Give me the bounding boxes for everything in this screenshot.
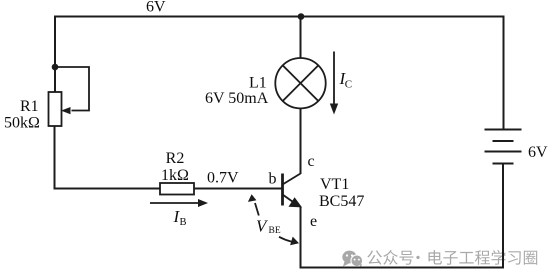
VBE arrow to emitter wire <box>279 237 292 242</box>
wire base row right of R2 <box>194 188 283 190</box>
watermark wechat icon <box>342 251 363 268</box>
node junction dot left <box>52 64 59 71</box>
wire lamp top <box>300 17 302 60</box>
node junction dot top <box>298 13 305 20</box>
svg-text:1kΩ: 1kΩ <box>161 167 189 184</box>
wire R1 bottom to base row <box>54 126 56 190</box>
svg-text:b: b <box>269 171 277 188</box>
battery plate long top <box>485 129 522 131</box>
wire bottom <box>300 267 505 269</box>
wire base row left of R2 <box>54 188 161 190</box>
wire right vertical bottom <box>502 164 504 269</box>
svg-text:VT1: VT1 <box>320 176 349 193</box>
svg-text:BE: BE <box>269 226 281 236</box>
svg-text:R2: R2 <box>166 150 185 167</box>
svg-text:L1: L1 <box>249 75 267 92</box>
lamp L1 circle <box>275 58 325 108</box>
potentiometer R1 body <box>49 92 62 126</box>
battery plate short <box>493 140 514 142</box>
potentiometer R1 wiper wire <box>55 67 89 111</box>
lamp L1 cross <box>283 65 319 101</box>
battery plate short bottom <box>493 163 514 165</box>
transistor VT1 base bar <box>281 174 284 206</box>
svg-text:R1: R1 <box>20 98 39 115</box>
transistor VT1 emitter diagonal <box>283 195 299 206</box>
svg-text:B: B <box>180 217 187 228</box>
svg-text:C: C <box>345 79 352 91</box>
current arrow IC <box>333 52 335 105</box>
wire right vertical top <box>503 16 505 130</box>
svg-text:50kΩ: 50kΩ <box>4 115 40 132</box>
potentiometer R1 wiper arrowhead <box>61 107 71 114</box>
svg-text:6V: 6V <box>528 144 548 161</box>
wire collector vertical to lamp <box>300 107 302 174</box>
watermark text 公众号·电子工程学习圈 (vector glyphs) <box>367 250 537 265</box>
current arrow IB <box>150 202 199 204</box>
svg-text:BC547: BC547 <box>319 193 364 210</box>
VBE arrow to base wire <box>255 203 259 216</box>
resistor R2 body <box>160 183 194 195</box>
svg-text:0.7V: 0.7V <box>207 170 239 187</box>
wire emitter vertical to bottom <box>300 207 302 269</box>
svg-text:6V 50mA: 6V 50mA <box>205 90 269 107</box>
wire top 6V rail <box>55 16 504 18</box>
transistor VT1 emitter arrowhead <box>289 197 303 207</box>
svg-text:c: c <box>308 153 315 170</box>
battery plate long <box>485 151 522 153</box>
svg-text:6V: 6V <box>146 0 166 16</box>
svg-text:e: e <box>310 213 317 230</box>
transistor VT1 collector diagonal <box>283 174 301 185</box>
wire left vertical <box>54 16 56 94</box>
